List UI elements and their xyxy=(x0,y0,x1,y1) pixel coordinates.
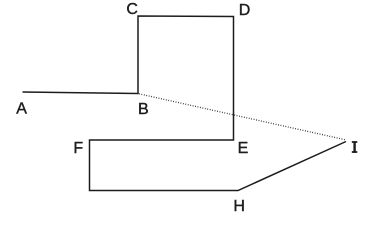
svg-text:D: D xyxy=(239,2,251,19)
svg-text:H: H xyxy=(233,198,245,215)
svg-text:B: B xyxy=(138,101,149,118)
svg-text:C: C xyxy=(126,1,138,18)
svg-text:E: E xyxy=(238,140,249,157)
svg-text:A: A xyxy=(16,101,27,118)
svg-text:F: F xyxy=(73,140,83,157)
